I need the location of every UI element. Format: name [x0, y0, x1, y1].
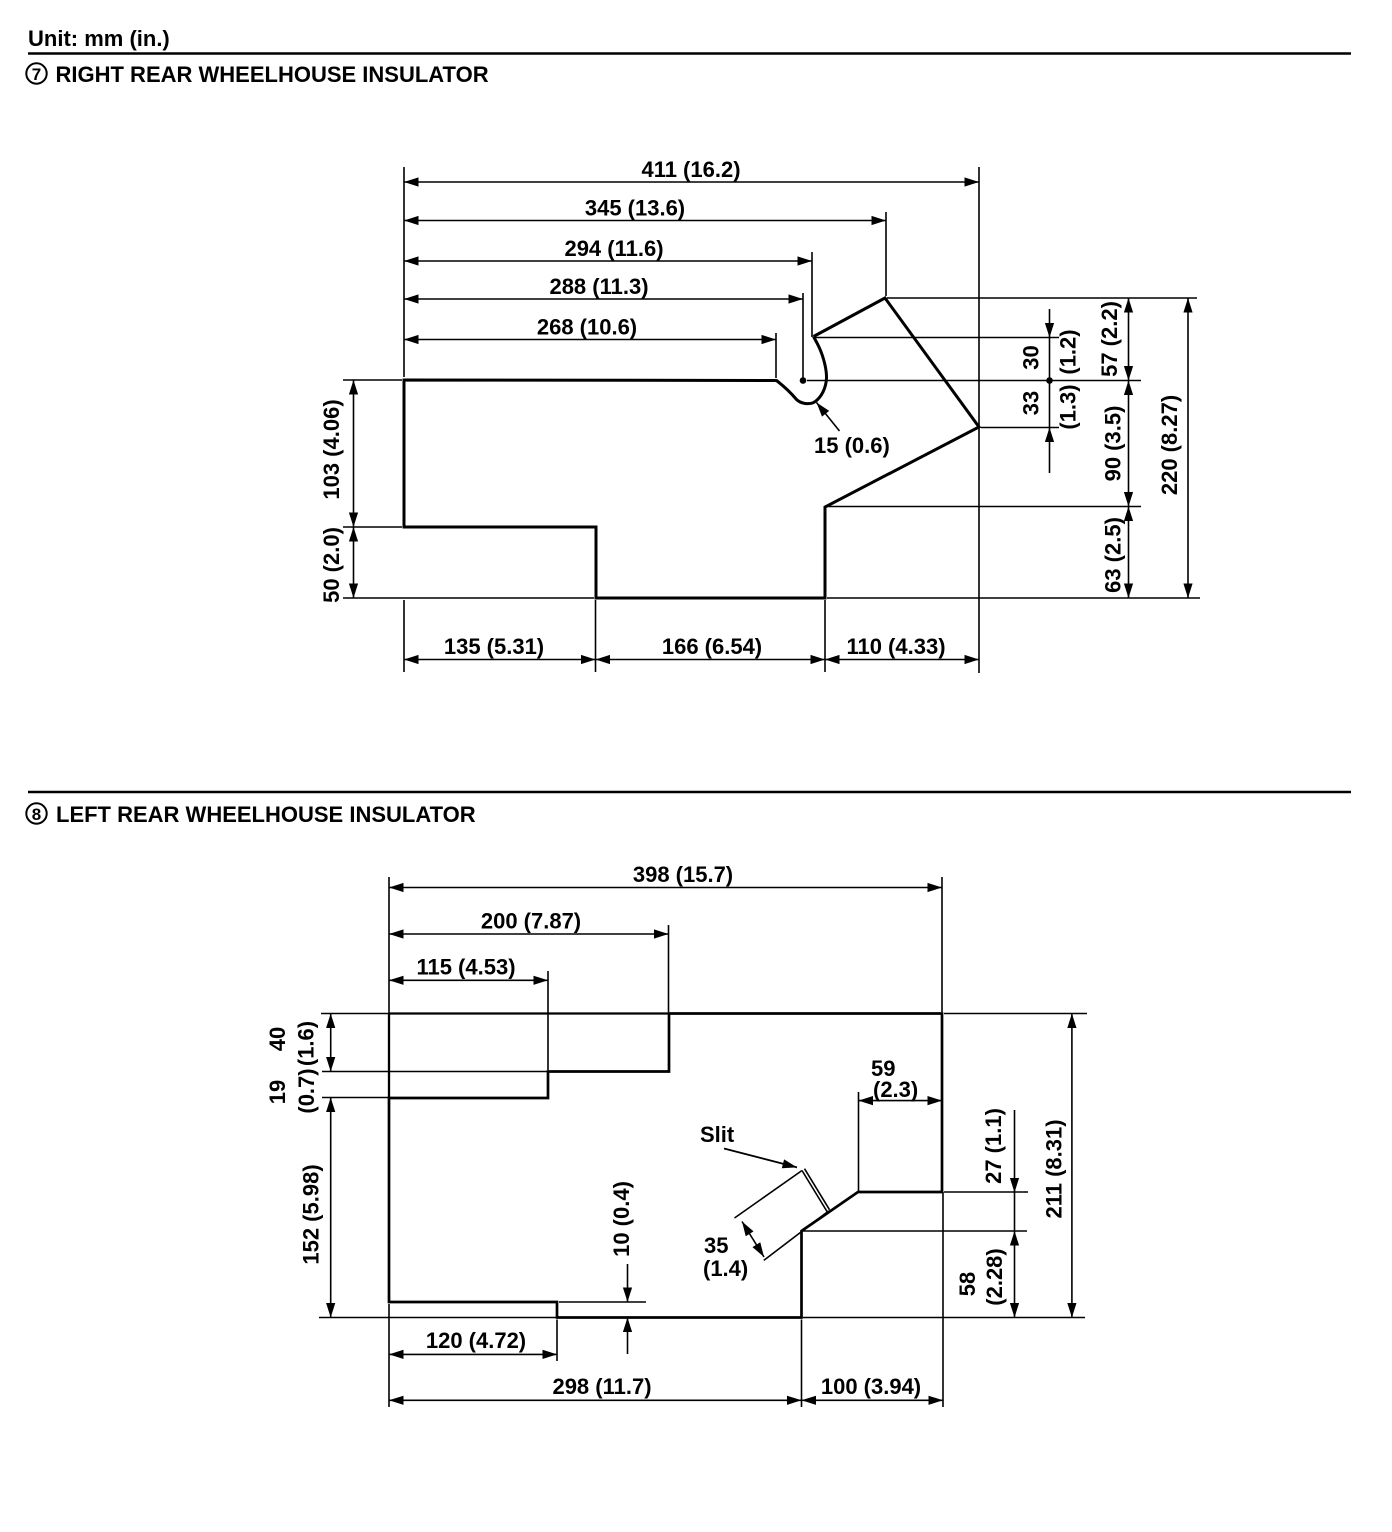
svg-text:(1.2): (1.2) — [1056, 329, 1081, 374]
svg-text:Slit: Slit — [700, 1122, 735, 1147]
svg-text:135 (5.31): 135 (5.31) — [444, 634, 544, 659]
header rule — [28, 52, 1351, 55]
p1 dim 57 — [1097, 298, 1129, 381]
p1 dim 288 — [404, 274, 803, 299]
p1 dim 345 — [404, 196, 886, 221]
svg-text:120 (4.72): 120 (4.72) — [426, 1328, 526, 1353]
svg-text:(2.28): (2.28) — [982, 1248, 1007, 1305]
p1 dim 103 — [319, 380, 354, 527]
p2 dim 40 — [265, 1014, 331, 1072]
svg-text:268 (10.6): 268 (10.6) — [537, 315, 637, 340]
svg-text:(1.4): (1.4) — [703, 1256, 748, 1281]
p1 ext x812 — [811, 252, 813, 337]
p1 dim 411 — [404, 157, 979, 182]
svg-text:7: 7 — [32, 65, 41, 84]
p2 ext x668.5 — [668, 925, 670, 1012]
svg-text:(2.3): (2.3) — [873, 1077, 918, 1102]
p1 ext left-top vertical x404 — [403, 167, 405, 377]
p1 dim 30-33 line — [1019, 309, 1081, 473]
svg-text:220 (8.27): 220 (8.27) — [1157, 395, 1182, 495]
p2 slit label — [700, 1122, 797, 1167]
p2 dim 120 — [389, 1328, 557, 1354]
p1 dim 220 — [1157, 298, 1188, 598]
p2 dim 298 — [389, 1374, 802, 1400]
p2 dim 27 — [981, 1108, 1015, 1231]
p2 dim 200 — [389, 909, 669, 935]
p1 ext right y506.5 — [827, 506, 1141, 508]
p1 dim 294 — [404, 236, 812, 261]
p2 ext x548 — [547, 971, 549, 1070]
svg-text:115 (4.53): 115 (4.53) — [416, 955, 515, 980]
svg-text:411 (16.2): 411 (16.2) — [641, 157, 740, 182]
p1 ext x776 — [775, 333, 777, 378]
section 7 circle — [26, 63, 46, 83]
p1 dim 268 — [404, 315, 776, 340]
svg-text:90 (3.5): 90 (3.5) — [1101, 406, 1126, 482]
p2 flap edge B — [764, 1211, 829, 1260]
svg-text:(0.7): (0.7) — [294, 1068, 319, 1113]
p2 ext y1013.5 left — [321, 1013, 389, 1015]
p1 ext right y380.5 — [807, 380, 1141, 382]
svg-text:Unit: mm (in.): Unit: mm (in.) — [28, 26, 170, 51]
p1 ext right y427.5 — [981, 427, 1059, 429]
p1 dim 110 — [825, 634, 979, 660]
part2 outline — [389, 1014, 942, 1318]
svg-text:(1.6): (1.6) — [294, 1021, 319, 1066]
svg-text:(1.3): (1.3) — [1056, 384, 1081, 429]
p1 ext right y337.5 — [815, 337, 1059, 339]
svg-text:35: 35 — [704, 1233, 728, 1258]
p2 ext y1190 right — [944, 1191, 1028, 1193]
p2 slit line 2 — [805, 1169, 830, 1210]
p2 dim 152 — [299, 1098, 331, 1318]
svg-text:50 (2.0): 50 (2.0) — [319, 527, 344, 603]
p2 slit line 1 — [802, 1171, 827, 1212]
svg-text:15 (0.6): 15 (0.6) — [814, 433, 890, 458]
part1 outline — [404, 298, 979, 598]
svg-text:58: 58 — [955, 1272, 980, 1296]
p2 dim 398 — [389, 862, 942, 888]
svg-text:RIGHT REAR WHEELHOUSE INSULATO: RIGHT REAR WHEELHOUSE INSULATOR — [56, 62, 489, 87]
svg-text:63 (2.5): 63 (2.5) — [1101, 517, 1126, 593]
svg-text:110 (4.33): 110 (4.33) — [846, 634, 945, 659]
p2 ext y1231 right — [803, 1230, 1027, 1232]
p2 dim 35 — [703, 1222, 764, 1282]
p1 ext bottom x404 — [403, 600, 405, 672]
p2 ext y1071.5 left — [322, 1071, 548, 1073]
p2 dim 115 — [389, 955, 548, 981]
p2 dim 10 — [609, 1181, 634, 1354]
p2 dim 100 — [802, 1374, 944, 1400]
p2 dim 19 — [265, 1068, 319, 1113]
svg-text:211 (8.31): 211 (8.31) — [1042, 1119, 1067, 1218]
p2 ext y1317 right — [803, 1317, 1085, 1319]
p1 ext right y298 — [887, 297, 1197, 299]
section 8 rule — [28, 791, 1351, 794]
p2 ext bottom x801.5 — [801, 1320, 803, 1408]
p1 ext bottom x595.5 — [595, 600, 597, 672]
svg-text:166 (6.54): 166 (6.54) — [662, 634, 762, 659]
part2 inner edge vertical x389 — [388, 1014, 390, 1099]
p1 ext x886 — [885, 212, 887, 296]
p1 dim 90 — [1101, 381, 1129, 507]
p1 ext x803 — [802, 293, 804, 379]
svg-text:8: 8 — [32, 805, 41, 824]
p1 ext bottom x825 — [824, 600, 826, 672]
p2 ext bottom x557 — [556, 1320, 558, 1362]
p1 ext right y598 — [827, 597, 1200, 599]
p1 dim 135 — [404, 634, 596, 660]
svg-text:40: 40 — [265, 1027, 290, 1051]
part1 slot dot — [800, 377, 807, 384]
p1 ext left y527 — [343, 526, 402, 528]
p1 dim 50 — [319, 527, 354, 603]
p1 dim 63 — [1101, 507, 1129, 599]
p2 dim 58 — [955, 1231, 1015, 1318]
svg-text:398 (15.7): 398 (15.7) — [633, 862, 733, 887]
svg-text:345 (13.6): 345 (13.6) — [585, 196, 685, 221]
p2 ext x942 top — [941, 877, 943, 1012]
svg-text:19: 19 — [265, 1080, 290, 1104]
p2 flap edge A — [735, 1171, 803, 1219]
part2 inner edge horizontal y1013.5 — [389, 1012, 669, 1014]
p2 ext y1013.5 right — [944, 1013, 1087, 1015]
p2 dim 59 — [859, 1056, 943, 1102]
p2 ext y1097.5 left — [322, 1097, 389, 1099]
svg-text:294 (11.6): 294 (11.6) — [564, 236, 663, 261]
p1 ext left y598 — [343, 597, 594, 599]
p2 ext y1301 right of step — [559, 1301, 646, 1303]
svg-text:100 (3.94): 100 (3.94) — [821, 1374, 921, 1399]
svg-text:298 (11.7): 298 (11.7) — [552, 1374, 651, 1399]
svg-text:30: 30 — [1019, 345, 1044, 369]
svg-text:10 (0.4): 10 (0.4) — [609, 1181, 634, 1257]
p1 leader 15 — [814, 403, 890, 459]
p2 ext x858.5 notch — [858, 1092, 860, 1191]
p1 dim 166 — [596, 634, 826, 660]
svg-text:103 (4.06): 103 (4.06) — [319, 399, 344, 499]
section 8 circle — [26, 803, 46, 823]
svg-text:152 (5.98): 152 (5.98) — [299, 1164, 324, 1264]
p2 ext bottom x943 — [942, 1192, 944, 1407]
p1 ext left y380 — [343, 379, 402, 381]
p2 ext bottom x389 — [388, 1304, 390, 1407]
svg-text:33: 33 — [1019, 391, 1044, 415]
svg-text:200 (7.87): 200 (7.87) — [481, 909, 581, 934]
p2 ext y1317.5 left — [319, 1317, 557, 1319]
p2 ext x389 top — [388, 877, 390, 1013]
p2 dim 211 — [1042, 1014, 1072, 1318]
svg-text:LEFT REAR WHEELHOUSE INSULATOR: LEFT REAR WHEELHOUSE INSULATOR — [56, 802, 476, 827]
p1 ext x979 full — [978, 167, 980, 673]
svg-text:27 (1.1): 27 (1.1) — [981, 1108, 1006, 1184]
svg-text:288 (11.3): 288 (11.3) — [549, 274, 648, 299]
svg-text:57 (2.2): 57 (2.2) — [1097, 301, 1122, 377]
